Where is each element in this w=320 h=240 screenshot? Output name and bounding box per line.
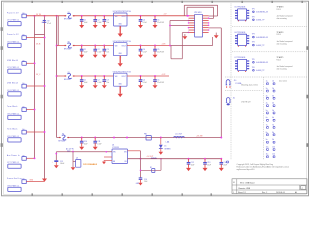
junction row1 to JP9 pin1 (186, 15, 188, 17)
wire JP9 pin1R to frame (209, 15, 218, 18)
capacitor C5 (154, 75, 156, 77)
junction x170 y45.5 (169, 45, 171, 47)
junction dots on bus (34, 15, 58, 159)
svg-text:C5: C5 (157, 49, 159, 51)
ground for C3 (102, 25, 107, 28)
capacitor C16 (139, 176, 143, 180)
svg-text:V 1.3: V 1.3 (277, 9, 281, 11)
svg-text:C11: C11 (97, 141, 100, 143)
row 3 rail wire (57, 75, 114, 78)
svg-text:C10: C10 (84, 141, 87, 143)
wire from JP2 (26, 36, 44, 39)
ground wire right of JP9 (215, 33, 218, 36)
capacitor C4 (140, 45, 142, 47)
ground for C16 (138, 183, 142, 186)
ground for C5 (153, 55, 158, 58)
sheet border frame (2, 1, 309, 196)
capacitor C2 (94, 15, 96, 17)
label box for JP2 (8, 43, 21, 47)
fuse F3 (66, 75, 72, 77)
test point TP23 (226, 161, 229, 164)
bus wire C2 (x=58.2) (57, 16, 60, 46)
ground for U1 (118, 26, 123, 34)
ferrite bead FB1 (146, 136, 151, 141)
capacitor C3 (103, 45, 105, 47)
svg-text:USB Mini-B: USB Mini-B (7, 83, 19, 85)
svg-text:U7 TPS2041B: U7 TPS2041B (235, 57, 247, 59)
svg-text:C3: C3 (107, 49, 109, 51)
junction dots on JP9 pins (188, 15, 210, 33)
ground for C3 (102, 55, 107, 58)
svg-text:D1: D1 (164, 146, 166, 148)
bottom rail 2 (y=158.7) (128, 157, 222, 160)
svg-text:C5: C5 (157, 80, 159, 82)
ground for C4 (138, 55, 143, 58)
wire from JP8 (26, 180, 44, 183)
ground for C2 (93, 55, 98, 58)
svg-text:C12: C12 (191, 162, 194, 164)
capacitor C3 (103, 15, 105, 17)
capacitor C5 (154, 15, 156, 17)
svg-text:+: + (41, 22, 42, 24)
svg-text:JP9 WIFI: JP9 WIFI (194, 12, 202, 14)
vertical at x56.3 down (55, 152, 58, 161)
capacitor C10 (81, 137, 83, 139)
feedback vertical x161 (160, 159, 163, 171)
route vertical x170 (169, 21, 172, 46)
svg-text:GREEN: GREEN (164, 148, 171, 150)
ground for C2 (93, 25, 98, 28)
label box for JP4 (8, 92, 21, 96)
svg-text:U6 TPS2041B: U6 TPS2041B (235, 32, 247, 34)
bus wire C1 (x=56.6) (55, 16, 58, 138)
row 3 output wire (127, 75, 169, 78)
svg-text:C2: C2 (97, 49, 99, 51)
svg-text:5V_IN: 5V_IN (36, 14, 42, 16)
svg-text:C1: C1 (84, 19, 86, 21)
wire JP9 pin to right bus (209, 26, 222, 29)
svg-text:C3: C3 (107, 80, 109, 82)
svg-text:+: + (52, 161, 53, 163)
svg-text:LTC3539: LTC3539 (112, 147, 119, 149)
title block frame (232, 179, 307, 194)
bus link A-B (35, 33, 45, 36)
vertical from JP9 right pins to y45.5 (211, 37, 214, 46)
svg-text:Rev: C: Rev: C (262, 192, 268, 194)
dashed separator 1 (232, 26, 308, 28)
vertical bus right x=221.3 (220, 28, 223, 138)
svg-text:C1: C1 (84, 49, 86, 51)
label box for JP5 (8, 115, 21, 119)
capacitor C2 (94, 75, 96, 77)
ground wire left of JP9 (183, 34, 186, 36)
ground for C1 (79, 85, 84, 88)
svg-text:2013-06-14: 2013-06-14 (276, 192, 285, 194)
wire from JP7 (26, 157, 34, 160)
ground for LED D1 (159, 152, 164, 155)
route wire left pin4 (170, 24, 189, 27)
bus wire A (x=34.5) (33, 16, 36, 159)
fuse F4 (61, 136, 67, 138)
svg-text:C9: C9 (47, 21, 49, 23)
dashed separator mounting (225, 90, 263, 92)
capacitor C13 (204, 158, 206, 160)
svg-text:C4: C4 (143, 49, 145, 51)
capacitor C15 (54, 160, 58, 162)
capacitor C4 (140, 15, 142, 17)
ground for C13 (203, 168, 208, 171)
ground for C4 (138, 85, 143, 88)
LED D1 feed wire (160, 137, 162, 139)
frame ticks bottom (32, 193, 212, 195)
U4 SW output wire (128, 149, 141, 152)
wire from JP4 (26, 85, 44, 88)
wire JP9 pin2R to frame (209, 17, 214, 20)
svg-text:C3: C3 (107, 19, 109, 21)
vertical dashed separator x=263.5 (263, 77, 265, 160)
LED D1 (159, 145, 163, 148)
label box for JP1 (8, 22, 21, 26)
ground for C12 (186, 168, 191, 171)
capacitor C14 (220, 158, 222, 160)
title block revision box (301, 186, 306, 190)
right column separator (vertical dashed) (230, 4, 232, 161)
ground for C15 (54, 165, 59, 168)
ground for C1 (79, 55, 84, 58)
fuse F1 (66, 15, 72, 17)
dashed separator 3 (225, 76, 308, 78)
transistor Q1 (72, 151, 74, 153)
junction rail1 right corner (220, 137, 222, 139)
jumper J11 symbol (226, 98, 230, 102)
capacitor C4 (140, 75, 142, 77)
bus frame vertical right inner (212, 7, 215, 18)
inductor L1 (174, 135, 185, 139)
svg-text:C1: C1 (84, 80, 86, 82)
bus frame above connector (top line 1) (184, 4, 217, 7)
svg-text:L1 4.7uH: L1 4.7uH (175, 134, 183, 136)
wire from JP3 (26, 62, 34, 65)
capacitor C1 (81, 75, 83, 77)
ground for C1 (79, 25, 84, 28)
svg-text:C2: C2 (97, 80, 99, 82)
svg-text:U4: U4 (112, 144, 114, 146)
dashed separator 2 (232, 51, 308, 53)
row 2 output wire (127, 44, 171, 47)
route vertical x182.3 up (181, 33, 184, 59)
U4 left pin wires (104, 156, 112, 159)
route wire left pin6 (182, 31, 188, 34)
ground for C5 (153, 25, 158, 28)
svg-text:USB Mini-B: USB Mini-B (7, 60, 19, 62)
bus frame above connector (top line 2) (187, 6, 214, 9)
wire feeding U4 VIN from left (56, 150, 112, 153)
ground for U3 (118, 86, 123, 94)
bus wire B (x=44.5) (43, 16, 46, 179)
svg-text:5V_C: 5V_C (36, 74, 41, 76)
IC U4 body (112, 149, 128, 164)
net wire y=45.5 to JP9 (171, 44, 213, 47)
row 2 rail wire (57, 44, 114, 47)
label box for JP7 (8, 164, 21, 168)
capacitor C12 (188, 158, 190, 160)
ground for Q1 (71, 167, 76, 170)
svg-text:C13: C13 (207, 162, 210, 164)
ground for C11 (93, 147, 98, 150)
row 1 output wire (127, 14, 187, 17)
label box for JP3 (8, 69, 21, 73)
bus frame vertical left outer (183, 5, 186, 16)
frame ticks right (306, 46, 308, 147)
connector JP9 pins (189, 16, 209, 33)
capacitor C3 (103, 75, 105, 77)
route horizontal y58.8 (171, 57, 182, 60)
bottom rail 1 (y=137.5) (57, 136, 222, 139)
bus frame vertical right outer (216, 5, 219, 16)
ground for U2 (118, 56, 123, 64)
ground for C14 (219, 168, 224, 171)
junction dots rail1 (113, 137, 115, 139)
inductor L2 on rail2 (151, 156, 157, 160)
ground for C5 (153, 85, 158, 88)
frame ticks top (32, 1, 303, 3)
label box for JP8 (8, 187, 21, 191)
wire from JP6 (26, 131, 44, 134)
ground for C4 (138, 25, 143, 28)
ground arrow right of JP9 (214, 35, 219, 38)
svg-text:C2: C2 (97, 19, 99, 21)
svg-text:C5: C5 (157, 19, 159, 21)
ground arrow at bottom of bus B (42, 179, 47, 182)
svg-text:J NOTE 12V: J NOTE 12V (241, 102, 251, 104)
svg-text:V 1.3: V 1.3 (277, 34, 281, 36)
mounting jack symbol J10 (226, 80, 230, 85)
svg-text:V 1.3: V 1.3 (277, 59, 281, 61)
fuse F2 (66, 44, 72, 46)
feedback loop horizontal y170.3 (141, 169, 162, 172)
capacitor C11 (94, 137, 96, 139)
svg-text:C4: C4 (143, 19, 145, 21)
test point grid (266, 81, 275, 158)
wire from JP5 (26, 108, 34, 111)
route vertical x171 down from row2 (170, 46, 173, 59)
route wire left pin3 (170, 19, 195, 22)
capacitor C1 (81, 45, 83, 47)
ground for C3 (102, 85, 107, 88)
ground arrow left of JP9 (183, 36, 188, 39)
bus frame vertical left inner (186, 7, 189, 16)
capacitor C1 (81, 15, 83, 17)
vertical x140.5 down (139, 151, 142, 178)
capacitor C5 (154, 45, 156, 47)
wire from JP1 (26, 14, 187, 17)
svg-text:C4: C4 (143, 80, 145, 82)
row 1 rail wire (26, 14, 113, 17)
resistor R1 (152, 169, 155, 173)
polarized capacitor C9 (42, 20, 46, 21)
label box for JP6 (8, 138, 21, 142)
svg-text:C14: C14 (224, 162, 227, 164)
frame ticks left (1, 27, 3, 147)
svg-text:U5 TPS2041B: U5 TPS2041B (235, 7, 247, 9)
ground for C2 (93, 85, 98, 88)
ground for C10 (79, 147, 84, 150)
ground under U4 left pins (103, 161, 106, 162)
capacitor C2 (94, 45, 96, 47)
